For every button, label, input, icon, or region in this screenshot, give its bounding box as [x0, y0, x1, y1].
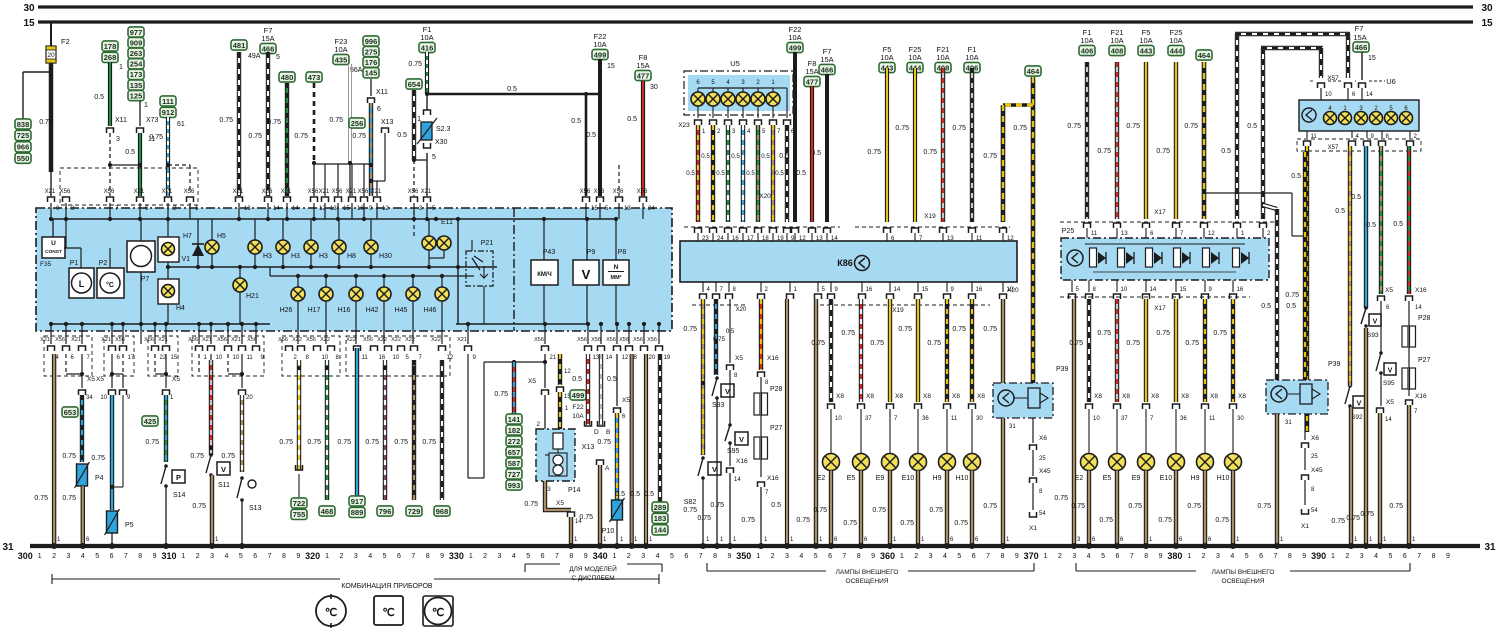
svg-text:0.75: 0.75: [923, 149, 937, 156]
svg-text:889: 889: [351, 508, 364, 517]
svg-text:X5: X5: [87, 376, 95, 383]
svg-text:0.75: 0.75: [422, 439, 436, 446]
svg-text:P28: P28: [1418, 315, 1431, 322]
svg-text:473: 473: [308, 73, 321, 82]
svg-text:P43: P43: [543, 249, 556, 256]
svg-text:10A: 10A: [1139, 36, 1152, 45]
cyan wire X57-9 down to S93 right: [1364, 146, 1368, 308]
red wire F8 to X20-13: [810, 86, 814, 222]
svg-text:9: 9: [153, 553, 157, 560]
sensor S2.3 with connector X30: [424, 110, 431, 115]
svg-text:0.75: 0.75: [219, 117, 233, 124]
svg-text:X13: X13: [582, 444, 595, 451]
svg-text:0.75: 0.75: [929, 507, 943, 514]
svg-text:0.75: 0.75: [394, 439, 408, 446]
svg-text:X20: X20: [759, 193, 771, 200]
svg-text:6: 6: [1115, 553, 1119, 560]
svg-text:9: 9: [1446, 553, 1450, 560]
svg-text:14: 14: [1415, 305, 1422, 311]
svg-text:6: 6: [684, 553, 688, 560]
svg-text:X16: X16: [1415, 287, 1427, 294]
black wire F7 to X20-14: [825, 74, 829, 222]
svg-text:V: V: [582, 267, 591, 282]
svg-text:X21: X21: [233, 189, 244, 195]
svg-text:X21: X21: [281, 189, 292, 195]
svg-text:36: 36: [922, 416, 929, 422]
svg-text:X56: X56: [104, 189, 115, 195]
svg-text:0.5: 0.5: [586, 132, 596, 139]
svg-text:10: 10: [1325, 92, 1332, 98]
svg-text:0.5: 0.5: [627, 116, 637, 123]
thin link wire pin12 net to S92 wire: [1205, 192, 1292, 194]
svg-text:6: 6: [972, 553, 976, 560]
svg-text:℃: ℃: [382, 607, 394, 619]
svg-text:0.75: 0.75: [39, 119, 53, 126]
brown wire S92 to rail 31 at 392: [1349, 407, 1353, 546]
svg-text:X21: X21: [134, 189, 145, 195]
grey-black wire down to P39 right: [1275, 209, 1279, 380]
svg-text:E2: E2: [1075, 475, 1084, 482]
svg-text:0.75: 0.75: [1054, 495, 1068, 502]
green-brown wire X57-8 down to X5: [1379, 146, 1383, 294]
svg-text:A: A: [605, 465, 610, 472]
svg-text:X56: X56: [217, 337, 227, 343]
black-white wire 481 down to X21 pin 13: [237, 52, 241, 196]
svg-text:125: 125: [130, 91, 143, 100]
switch S92: [1348, 384, 1352, 388]
svg-text:917: 917: [351, 497, 364, 506]
svg-text:15A: 15A: [820, 55, 833, 64]
blue exit wire with codes 917/889: [355, 348, 359, 496]
svg-text:31: 31: [1009, 424, 1016, 430]
svg-text:0.5: 0.5: [726, 328, 735, 335]
warning lamp H7 in box: [158, 237, 179, 262]
branch wire to codes 838/725/966/550: [23, 71, 51, 73]
svg-text:0.75: 0.75: [841, 330, 855, 337]
warning lamp H21: [233, 278, 247, 292]
svg-text:0.5: 0.5: [716, 170, 725, 177]
svg-text:10: 10: [100, 395, 107, 401]
svg-text:0.75: 0.75: [952, 125, 966, 132]
svg-text:10A: 10A: [1110, 36, 1123, 45]
black-white exit wire X56-19 with codes 289 183 144: [658, 354, 662, 502]
svg-text:P10: P10: [602, 528, 615, 535]
handbrake switch S11: [209, 453, 213, 457]
svg-text:CONST: CONST: [45, 249, 62, 255]
switch S11 circuit wires: [198, 354, 200, 374]
green-white exit wire with code 468: [325, 360, 329, 500]
svg-text:0.75: 0.75: [813, 507, 827, 514]
warning lamp H5: [205, 240, 219, 254]
svg-text:183: 183: [654, 514, 667, 523]
cyan-yellow wire to P10: [615, 413, 619, 500]
svg-text:S11: S11: [218, 482, 230, 489]
svg-text:0.75: 0.75: [898, 326, 912, 333]
svg-text:796: 796: [379, 507, 392, 516]
svg-text:173: 173: [130, 70, 143, 79]
svg-text:8: 8: [1001, 553, 1005, 560]
cluster bottom connector stubs and pins: [48, 346, 55, 351]
svg-text:X8: X8: [977, 393, 985, 400]
svg-text:15: 15: [607, 63, 615, 70]
svg-text:0.5: 0.5: [125, 149, 135, 156]
svg-text:ОСВЕЩЕНИЯ: ОСВЕЩЕНИЯ: [1222, 578, 1265, 585]
svg-text:360: 360: [880, 551, 895, 561]
svg-text:X8: X8: [1238, 393, 1246, 400]
black wire F22 down to X56 pin 5: [598, 59, 602, 196]
svg-text:X16: X16: [767, 475, 779, 482]
svg-text:12: 12: [564, 369, 571, 375]
svg-text:380: 380: [1167, 551, 1182, 561]
svg-text:5: 5: [383, 553, 387, 560]
svg-text:6: 6: [377, 106, 381, 113]
long brown wire X17-5 to rail 31 at 373: [1072, 299, 1076, 546]
svg-text:X19: X19: [892, 307, 904, 314]
svg-text:12: 12: [622, 355, 629, 361]
svg-text:0.75: 0.75: [1215, 517, 1229, 524]
svg-text:1: 1: [1187, 553, 1191, 560]
svg-text:H4: H4: [176, 305, 185, 312]
svg-text:13: 13: [593, 355, 600, 361]
svg-text:S14: S14: [173, 492, 186, 499]
svg-text:0.5: 0.5: [1351, 194, 1361, 201]
svg-text:H9: H9: [1191, 475, 1200, 482]
svg-text:X8: X8: [836, 393, 844, 400]
svg-text:416: 416: [421, 43, 434, 52]
svg-text:X73: X73: [146, 117, 159, 124]
svg-text:3: 3: [354, 553, 358, 560]
svg-text:466: 466: [821, 65, 834, 74]
svg-text:9: 9: [584, 553, 588, 560]
svg-text:V: V: [712, 465, 717, 474]
svg-text:X8: X8: [1210, 393, 1218, 400]
svg-text:X8: X8: [1094, 393, 1102, 400]
svg-text:U5: U5: [730, 59, 740, 68]
svg-text:6: 6: [1259, 553, 1263, 560]
green-brown wire X23-5 to X20-18: [756, 125, 760, 222]
svg-text:9: 9: [1302, 553, 1306, 560]
svg-text:ЛАМПЫ ВНЕШНЕГО: ЛАМПЫ ВНЕШНЕГО: [1212, 569, 1275, 576]
svg-text:0.5: 0.5: [771, 502, 781, 509]
svg-text:0.5: 0.5: [1366, 222, 1376, 229]
svg-text:10A: 10A: [334, 45, 347, 54]
connector X57 bottom row: [1297, 139, 1421, 151]
svg-text:310: 310: [161, 551, 176, 561]
svg-text:15: 15: [591, 206, 598, 212]
svg-text:176: 176: [365, 58, 378, 67]
svg-text:182: 182: [508, 426, 521, 435]
svg-text:E11: E11: [441, 219, 453, 226]
svg-text:15: 15: [1481, 18, 1493, 29]
svg-text:7: 7: [555, 553, 559, 560]
red wire F8 down to X56 pin 24: [641, 81, 645, 196]
svg-text:275: 275: [365, 47, 378, 56]
svg-text:0.75: 0.75: [683, 326, 697, 333]
svg-text:0.75: 0.75: [307, 439, 321, 446]
svg-text:909: 909: [130, 38, 143, 47]
svg-text:425: 425: [144, 417, 157, 426]
svg-text:15: 15: [23, 18, 35, 29]
svg-text:993: 993: [508, 481, 521, 490]
svg-text:X21: X21: [101, 337, 111, 343]
svg-text:444: 444: [1170, 46, 1183, 55]
red-cyan exit wire with codes 141 182 272 657 587 727 993: [512, 362, 516, 414]
svg-text:6: 6: [397, 553, 401, 560]
red-yellow wire X23-1 to X20-23: [696, 125, 700, 222]
switch S82: [701, 456, 705, 460]
svg-text:P39: P39: [1328, 361, 1341, 368]
svg-text:10A: 10A: [880, 53, 893, 62]
wire code label 481 / 49A: [231, 40, 247, 50]
green wire to X11 pin 3: [108, 62, 112, 126]
brown wire P4 to rail 31 at 304: [81, 486, 85, 546]
svg-text:F7: F7: [1355, 24, 1364, 33]
svg-text:0.75: 0.75: [190, 453, 204, 460]
svg-text:0.75: 0.75: [192, 503, 206, 510]
svg-text:P5: P5: [125, 522, 134, 529]
svg-text:0.75: 0.75: [149, 134, 163, 141]
svg-text:P27: P27: [1418, 357, 1431, 364]
branch of 464 wire to X19-12: [1003, 103, 1033, 107]
wire code label 499 with F22 10A: [570, 390, 586, 400]
svg-text:5: 5: [957, 553, 961, 560]
svg-text:X56: X56: [358, 189, 369, 195]
svg-text:0.75: 0.75: [1097, 148, 1111, 155]
wire from stack to X11 pin 6: [370, 79, 372, 96]
svg-text:0.75: 0.75: [62, 495, 76, 502]
svg-text:8: 8: [857, 553, 861, 560]
brown wire X21-4 to rail 31 at 302: [52, 354, 56, 546]
control unit K86: [680, 241, 1017, 282]
svg-text:E10: E10: [902, 475, 915, 482]
svg-text:X23: X23: [678, 122, 690, 129]
svg-text:0.5: 0.5: [644, 491, 654, 498]
svg-text:X56: X56: [188, 337, 198, 343]
svg-text:268: 268: [104, 53, 117, 62]
fuse F2 with value 20: [50, 22, 52, 46]
svg-text:X16: X16: [1415, 393, 1427, 400]
svg-text:X56: X56: [606, 337, 616, 343]
svg-text:11: 11: [1209, 416, 1216, 422]
svg-text:3: 3: [116, 136, 120, 143]
svg-text:7: 7: [1417, 553, 1421, 560]
svg-text:V: V: [1373, 319, 1378, 326]
svg-text:0.75: 0.75: [62, 453, 76, 460]
svg-text:6: 6: [541, 553, 545, 560]
svg-text:8: 8: [1288, 553, 1292, 560]
violet-white exit wire with code 796: [383, 360, 387, 500]
svg-text:466: 466: [262, 44, 275, 53]
sensor P10: [610, 498, 625, 522]
svg-text:H9: H9: [933, 475, 942, 482]
svg-text:X11: X11: [115, 117, 127, 124]
svg-text:3: 3: [498, 553, 502, 560]
svg-text:499: 499: [594, 50, 607, 59]
svg-text:254: 254: [130, 60, 143, 69]
svg-text:5: 5: [95, 553, 99, 560]
svg-text:2: 2: [1345, 553, 1349, 560]
svg-text:P27: P27: [770, 425, 783, 432]
wire X56-21 down to relay P14: [544, 354, 546, 388]
svg-text:3: 3: [210, 553, 214, 560]
cyan-black wire to sensor P4: [80, 395, 84, 462]
svg-text:H46: H46: [424, 307, 437, 314]
sensor P5 circuit wires: [111, 354, 113, 374]
svg-text:N: N: [614, 264, 619, 271]
svg-text:16: 16: [866, 287, 873, 293]
svg-text:X56: X56: [613, 189, 624, 195]
connector chain X6 X45 X1 (middle): [1032, 418, 1034, 443]
double thin wire from F23 down: [348, 64, 350, 163]
svg-text:E2: E2: [817, 475, 826, 482]
brown wire to rail 31 at 394: [1378, 413, 1382, 546]
svg-text:3: 3: [641, 553, 645, 560]
svg-text:P14: P14: [568, 487, 581, 494]
black-white exit wire with code 968: [440, 360, 444, 500]
yellow wire F25 to X17-7: [1174, 62, 1178, 219]
svg-text:H10: H10: [956, 475, 969, 482]
svg-text:0.5: 0.5: [1393, 221, 1403, 228]
svg-text:X22: X22: [431, 337, 441, 343]
svg-text:H3: H3: [291, 253, 300, 260]
svg-text:13: 13: [244, 206, 251, 212]
svg-text:0.75: 0.75: [1069, 340, 1083, 347]
svg-text:X56: X56: [363, 337, 373, 343]
black wire F22 to X20-12: [793, 52, 797, 222]
svg-text:X56: X56: [534, 337, 544, 343]
svg-text:0.75: 0.75: [1126, 340, 1140, 347]
svg-text:838: 838: [17, 120, 30, 129]
svg-text:H30: H30: [379, 253, 392, 260]
P25 internal link lines: [1085, 243, 1245, 245]
svg-text:20: 20: [649, 355, 656, 361]
svg-text:16: 16: [357, 206, 364, 212]
svg-text:0.75: 0.75: [34, 495, 48, 502]
svg-text:0.5: 0.5: [571, 118, 581, 125]
svg-text:0.75: 0.75: [1346, 515, 1360, 522]
branch of inner loop down to right P39: [1263, 205, 1277, 209]
svg-text:3: 3: [929, 553, 933, 560]
grey-black wire F1 to X19-11: [970, 68, 974, 222]
svg-text:X22: X22: [391, 337, 401, 343]
ground rail 31 (bottom bus): [30, 544, 1480, 548]
svg-text:135: 135: [130, 81, 143, 90]
svg-text:9: 9: [296, 553, 300, 560]
svg-text:X45: X45: [1311, 467, 1323, 474]
switch S93 (middle): [715, 376, 719, 380]
branch down to X56 pin 15: [585, 94, 588, 196]
U5 internal bus: [698, 87, 773, 89]
coolant temperature symbol 1: [316, 596, 346, 626]
svg-text:15A: 15A: [1353, 33, 1366, 42]
svg-text:P7: P7: [141, 276, 150, 283]
power rail 30 (top bus): [38, 5, 1473, 8]
brown wire P14 pin 3 to X5-14 to rail 31 at 338: [545, 481, 571, 510]
svg-text:10: 10: [1093, 416, 1100, 422]
grey-white wire X56-14 to connector B: [599, 354, 603, 425]
svg-text:1: 1: [613, 553, 617, 560]
svg-text:15: 15: [343, 206, 350, 212]
svg-text:25: 25: [1311, 454, 1318, 460]
svg-text:10: 10: [233, 355, 240, 361]
brown wire P39 to rail 31 at 368: [1001, 418, 1005, 546]
wire code labels 178 268: [102, 41, 118, 51]
svg-text:X56: X56: [637, 189, 648, 195]
svg-text:480: 480: [281, 73, 294, 82]
svg-text:P9: P9: [587, 249, 596, 256]
connector chain X6 X45 X1 right: [1304, 414, 1306, 440]
svg-text:0.75: 0.75: [408, 61, 422, 68]
wire from F2 down to X21: [49, 63, 54, 172]
svg-text:0.5: 0.5: [796, 170, 806, 177]
black-white wire X17-1 loop to X57-6: [1235, 34, 1239, 219]
svg-text:0.75: 0.75: [900, 520, 914, 527]
resistor P27 (middle): [754, 437, 760, 459]
svg-text:37: 37: [1121, 416, 1128, 422]
svg-text:X56: X56: [144, 337, 154, 343]
svg-text:V: V: [725, 387, 730, 396]
svg-text:20: 20: [246, 395, 253, 401]
diode V1: [197, 219, 199, 267]
svg-text:X16: X16: [736, 458, 748, 465]
svg-text:8: 8: [282, 553, 286, 560]
svg-text:654: 654: [408, 80, 421, 89]
svg-text:3: 3: [66, 553, 70, 560]
svg-text:X5: X5: [735, 355, 743, 362]
black-white wire X23-6 to X20-9: [785, 125, 789, 222]
svg-text:H42: H42: [366, 307, 379, 314]
svg-text:37: 37: [865, 416, 872, 422]
svg-text:0.75: 0.75: [1331, 518, 1345, 525]
svg-text:1: 1: [325, 553, 329, 560]
svg-text:330: 330: [449, 551, 464, 561]
svg-text:300: 300: [18, 551, 33, 561]
svg-text:0.75: 0.75: [294, 133, 308, 140]
svg-text:3: 3: [1216, 553, 1220, 560]
svg-text:34: 34: [86, 395, 93, 401]
switch S13 circuit: [227, 354, 229, 374]
svg-text:8: 8: [1144, 553, 1148, 560]
resistor P28 (middle): [754, 393, 760, 415]
grey-red wire F21 to X17-13: [1115, 62, 1119, 219]
svg-text:V: V: [1357, 401, 1362, 408]
switch S95 right: [1379, 351, 1383, 355]
svg-text:10A: 10A: [788, 33, 801, 42]
svg-text:P39: P39: [1056, 366, 1069, 373]
svg-text:P1: P1: [70, 260, 79, 267]
svg-text:X56: X56: [247, 337, 257, 343]
svg-text:X21: X21: [319, 189, 330, 195]
svg-text:H26: H26: [280, 307, 293, 314]
svg-text:0.5: 0.5: [630, 491, 640, 498]
svg-text:X45: X45: [1039, 468, 1051, 475]
svg-text:14: 14: [1366, 92, 1373, 98]
svg-text:968: 968: [436, 507, 449, 516]
cluster internal bottom bus: [51, 323, 270, 325]
black-yellow wire X57-11 down to S92: [1305, 146, 1309, 432]
svg-text:5: 5: [814, 553, 818, 560]
svg-text:13: 13: [330, 206, 337, 212]
green-black wire 480 down to X21 pin 14: [285, 83, 289, 196]
svg-text:0.5: 0.5: [1291, 173, 1301, 180]
svg-text:406: 406: [1081, 46, 1094, 55]
svg-text:X21: X21: [371, 189, 382, 195]
black-yellow wire from X56 to P14 pin 1: [558, 354, 562, 385]
svg-text:S82: S82: [684, 499, 697, 506]
svg-text:E5: E5: [847, 475, 856, 482]
svg-text:U6: U6: [1386, 77, 1396, 86]
svg-text:1: 1: [38, 553, 42, 560]
